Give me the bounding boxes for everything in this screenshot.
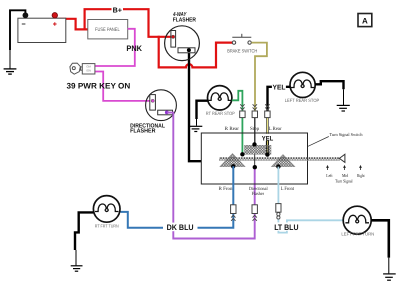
svg-text:B+: B+ [113,5,122,14]
rt frt turn lamp [93,196,120,229]
4-way flasher U1 [165,26,200,61]
switch bar hatched [245,145,272,154]
left frt turn lamp [341,206,374,236]
label YEL lower [261,134,275,143]
svg-text:Right: Right [357,173,365,178]
left contact triangle [220,154,245,167]
svg-text:A: A [362,16,368,25]
label LT BLU [274,222,301,232]
svg-text:Stop: Stop [250,126,260,132]
node dot L rear on bar [265,152,269,156]
label DK BLU [163,223,198,233]
wire black left frt turn to ground [371,220,389,257]
wire red branch to brake switch with hop over black wire [159,36,233,68]
svg-text:BRAKE SWITCH: BRAKE SWITCH [227,48,257,53]
node dot right triangle [276,164,280,168]
wire black YEL left rear stop to L Rear connector [268,87,291,111]
wire green rt rear stop to R Rear connector and switch bar [232,91,243,111]
node dot purple center [253,165,257,169]
svg-text:Flasher: Flasher [252,191,265,197]
switch rail chain [219,157,340,161]
node dot left triangle [231,164,235,168]
wire pale yellow L Rear connector lower [266,118,269,141]
connector C4 R Front [231,205,236,221]
wire light blue L Front to left frt turn lamp [278,167,343,233]
wire pink fuse panel to key switch [95,29,135,66]
svg-text:DK BLU: DK BLU [167,223,194,232]
node dot stop on bar [252,142,256,146]
turn signal lever arrows [328,167,361,170]
connector C3 L Rear [265,104,270,117]
svg-text:L Front: L Front [281,186,295,192]
svg-text:RT REAR STOP: RT REAR STOP [206,111,235,116]
node dot R rear on bar [240,152,244,156]
left rear stop lamp [285,72,319,103]
wire thin link bar to center contact [254,154,256,167]
connector C2 Stop [252,104,257,117]
svg-text:RT FRT TURN: RT FRT TURN [95,223,119,228]
fuse panel [88,20,128,39]
connector C5 directional flasher [252,205,257,221]
svg-text:LEFT REAR STOP: LEFT REAR STOP [285,98,319,103]
wire black rt frt turn to ground [75,212,94,250]
svg-text:FUSE PANEL: FUSE PANEL [95,27,120,33]
wire purple directional flasher to switch [167,113,255,239]
wire black left rear stop to ground [315,81,343,89]
svg-text:39 PWR KEY ON: 39 PWR KEY ON [67,82,131,91]
connector C6 L Front [276,204,281,219]
wire pink key switch to directional flasher [95,72,153,101]
svg-text:LEFT FRT TURN: LEFT FRT TURN [341,232,374,237]
svg-text:LT BLU: LT BLU [274,223,298,232]
ground left frt turn [383,274,396,280]
rail end arrow [339,154,345,162]
wire black battery negative to ground [10,10,25,50]
wire red battery positive to fuse panel [56,19,88,30]
svg-text:Turn Signal: Turn Signal [335,178,353,183]
wire olive brake switch to Stop connector [251,43,267,111]
battery [18,12,66,42]
wire black Stop connector to switch bar [254,118,256,144]
label B+ [112,5,124,14]
svg-text:YEL: YEL [273,84,287,91]
wire dark blue R Front to rt frt turn lamp [121,166,234,227]
svg-text:R Front: R Front [219,186,235,192]
zone label A [358,14,372,27]
ground rt frt turn [71,266,83,271]
svg-text:L Rear: L Rear [269,126,282,132]
ground left rear stop [337,105,350,111]
rt rear stop lamp [206,86,235,116]
wire red B+ rail to 4-way flasher [85,9,173,37]
right contact triangle [272,155,295,167]
label YEL upper [272,82,286,91]
ground battery [4,69,17,74]
svg-text:Left: Left [326,173,333,178]
turn signal switch box [201,133,307,184]
svg-text:R Rear: R Rear [225,126,240,132]
svg-text:IGN: IGN [86,69,91,73]
directional flasher U2 [146,90,177,121]
svg-text:FLASHER: FLASHER [173,17,197,24]
svg-text:PNK: PNK [126,44,142,53]
wire black 4-way flasher to turn signal switch box [189,50,201,161]
wire yellow-black L Rear to switch bar [266,141,269,155]
key switch 39 PWR KEY ON [70,63,95,74]
connector C1 R Rear [240,104,245,117]
svg-text:Turn Signal Switch: Turn Signal Switch [330,132,364,137]
brake switch [227,34,257,54]
ground rt rear stop [189,126,203,131]
svg-text:FLASHER: FLASHER [130,128,156,135]
wire black rt rear stop to ground [197,101,208,119]
